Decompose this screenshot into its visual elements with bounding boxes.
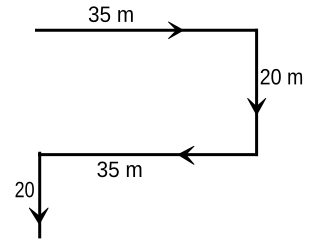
wire left vertical segment <box>38 152 41 239</box>
arrowhead down (left segment) <box>29 208 48 225</box>
label 35 m (bottom) <box>97 162 141 178</box>
wire top horizontal segment <box>35 29 258 32</box>
arrowhead down (right segment) <box>248 98 266 115</box>
arrowhead right (top segment) <box>168 22 183 39</box>
label 35 m (top) <box>89 6 133 22</box>
arrowhead left (bottom segment) <box>178 146 194 164</box>
label 20 m (right) <box>261 69 302 85</box>
label 20 (left) <box>16 182 34 198</box>
wire bottom horizontal segment <box>38 153 258 156</box>
wire right vertical segment <box>255 29 258 156</box>
